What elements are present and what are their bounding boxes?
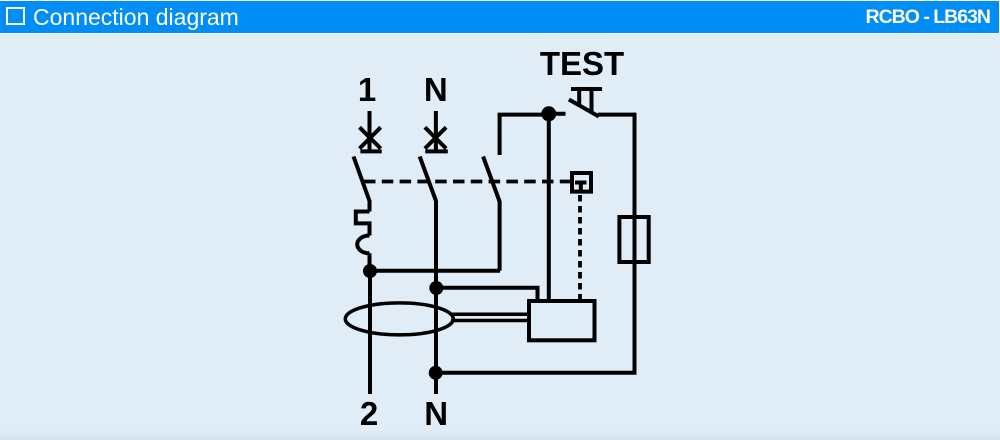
test button cap <box>571 87 602 91</box>
current transformer CT <box>345 303 453 335</box>
wire node B stub right <box>549 112 566 116</box>
header checkbox icon <box>6 7 25 26</box>
svg-text:TEST: TEST <box>540 45 624 82</box>
wire pole3 riser <box>498 201 502 271</box>
svg-text:N: N <box>424 71 448 108</box>
junction node C on N <box>429 281 443 295</box>
wire N pole main <box>434 201 438 394</box>
CT secondary wire lower <box>451 319 531 323</box>
wire pole1 down through CT <box>368 271 372 394</box>
wire node A to pole3 riser <box>370 269 500 273</box>
trip relay box <box>529 301 595 340</box>
linkage dashed vertical to relay <box>578 195 582 301</box>
thermal overload element pole1 <box>356 212 370 236</box>
test indicator box T <box>572 173 591 192</box>
wire right rail <box>633 113 637 373</box>
switch blade pole3 (test contact) <box>483 157 500 202</box>
svg-text:N: N <box>424 395 448 432</box>
wire pole1 below blade <box>368 201 372 212</box>
CT secondary wire upper <box>451 312 531 316</box>
junction node D on N bottom <box>429 366 443 380</box>
test button blade <box>569 100 599 117</box>
svg-text:1: 1 <box>358 71 376 108</box>
junction node A <box>363 264 377 278</box>
wire top run to test node <box>498 113 549 117</box>
wire pole1 top stub <box>368 111 372 150</box>
mechanical linkage dashed horizontal <box>364 180 570 184</box>
wire test contact to right rail <box>598 113 635 117</box>
wire pole3 top stub <box>498 115 502 155</box>
header title <box>33 4 239 31</box>
svg-text:2: 2 <box>360 395 378 432</box>
bottom shade <box>0 431 1000 440</box>
test resistor R <box>619 217 648 262</box>
switch blade pole1 <box>354 157 370 202</box>
terminal clamp X pole1 <box>360 127 382 151</box>
header bar <box>0 1 999 33</box>
terminal clamp X poleN <box>425 127 448 151</box>
switch blade poleN <box>420 157 437 202</box>
wire node B down to relay <box>547 114 551 301</box>
header model label <box>865 6 990 29</box>
magnetic trip coil pole1 <box>357 236 369 254</box>
wire coil to node A <box>368 253 372 266</box>
wire node C to relay <box>436 288 537 301</box>
test button leg left <box>577 89 581 106</box>
wire N pole top stub <box>434 111 438 150</box>
junction node B (test node) <box>541 106 556 121</box>
wire bottom return to N <box>436 371 637 375</box>
test button leg right <box>590 89 594 112</box>
